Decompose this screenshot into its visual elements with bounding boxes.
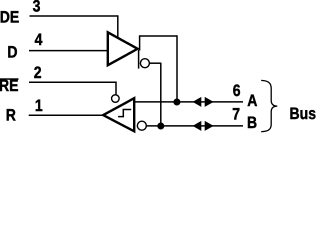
wire D input [29, 50, 108, 52]
diode arrow left on A line [193, 97, 202, 107]
diode arrow left on B line [193, 121, 202, 131]
svg-text:7: 7 [232, 106, 240, 124]
receiver hysteresis symbol [118, 110, 131, 117]
wire feed down to B line [160, 63, 162, 126]
junction dot on B line [157, 123, 164, 130]
receiver buffer triangle [103, 98, 134, 131]
wire driver bubble out [149, 62, 161, 64]
wire bus A line [135, 101, 244, 103]
bus curly brace [261, 80, 277, 131]
wire driver inverting stub down [138, 50, 140, 69]
driver inverting output bubble [140, 59, 149, 68]
svg-text:Bus: Bus [290, 105, 316, 123]
svg-text:6: 6 [233, 82, 241, 100]
wire DE input [30, 15, 118, 17]
receiver inverting input bubble [137, 121, 146, 130]
driver buffer triangle [108, 32, 138, 65]
svg-text:1: 1 [35, 97, 43, 115]
wire feed down to A line [176, 35, 178, 102]
junction dot on A line [173, 99, 180, 106]
wire DE enable drop to driver [117, 15, 119, 39]
svg-text:R: R [6, 106, 16, 124]
svg-text:3: 3 [33, 0, 41, 16]
svg-text:B: B [247, 114, 257, 132]
wire driver output up [139, 36, 141, 51]
svg-text:D: D [7, 44, 17, 62]
svg-text:DE: DE [0, 9, 19, 27]
wire bus B line [146, 125, 243, 127]
RE overline bar [0, 78, 19, 80]
svg-text:RE: RE [0, 77, 18, 95]
wire R output [29, 114, 104, 116]
svg-text:4: 4 [35, 31, 44, 49]
wire driver output top horizontal [139, 35, 177, 37]
diode arrow right on B line [205, 121, 214, 131]
wire RE input [29, 81, 116, 83]
receiver enable bubble [112, 95, 120, 103]
svg-text:2: 2 [34, 64, 42, 82]
wire RE enable drop to receiver bubble [115, 82, 117, 95]
svg-text:A: A [247, 92, 257, 110]
diode arrow right on A line [205, 97, 214, 107]
